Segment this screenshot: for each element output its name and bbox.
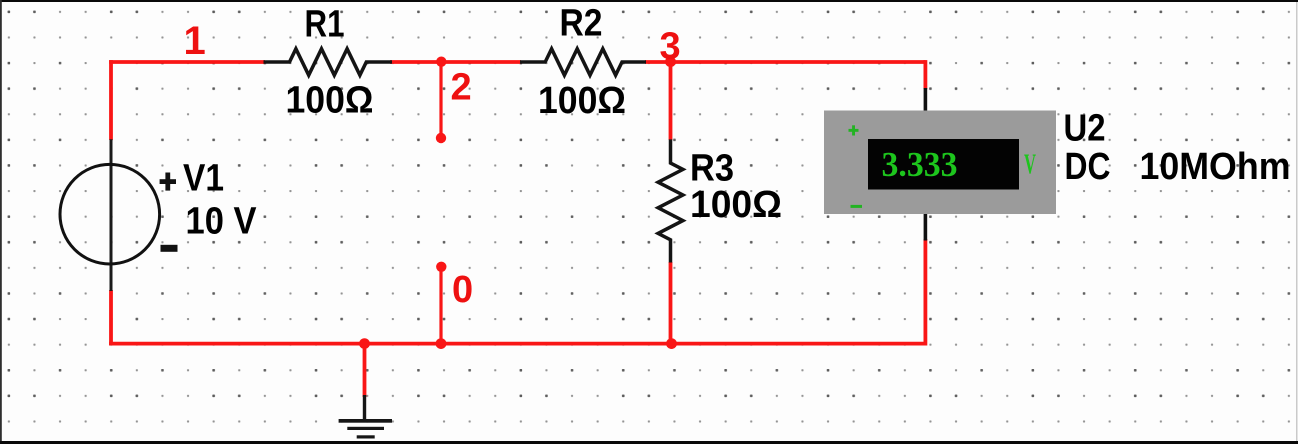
junction ground tap on bottom net	[359, 338, 370, 349]
wire: U2 bottom pin down to bottom net	[924, 239, 928, 346]
frame left border	[0, 0, 2, 441]
V1 minus polarity sign	[161, 245, 178, 252]
wire: top horizontal net 1 (left segment)	[109, 60, 265, 64]
wire: node 0 stub	[439, 267, 442, 344]
wire: node 2 stub	[439, 62, 442, 138]
ground	[339, 395, 392, 439]
U2 minus terminal mark	[851, 205, 863, 208]
frame top border	[0, 0, 1298, 2]
wire: top horizontal between R1 and R2 (node 2 segment)	[390, 60, 521, 64]
svg-text:10 V: 10 V	[186, 200, 258, 242]
svg-text:DC: DC	[1065, 146, 1111, 188]
junction node 0 stub top dot	[436, 262, 446, 272]
svg-text:U2: U2	[1064, 108, 1106, 150]
junction node 2 on top net	[436, 57, 446, 67]
svg-text:R1: R1	[305, 4, 345, 46]
wire: R3 bottom to bottom net	[669, 262, 673, 344]
wire: node 3 down to R3 top	[669, 62, 673, 140]
svg-text:1: 1	[184, 19, 206, 63]
svg-text:100Ω: 100Ω	[538, 80, 626, 122]
junction node 0 on bottom net	[436, 338, 447, 349]
svg-text:V1: V1	[183, 158, 224, 200]
svg-text:10MOhm: 10MOhm	[1140, 146, 1291, 188]
U2 plus terminal mark	[849, 125, 859, 135]
wire: right vertical down to U2 top pin	[924, 60, 928, 89]
resistor R1	[264, 49, 393, 75]
junction R3 bottom on bottom net	[666, 338, 677, 349]
multimeter U2	[824, 88, 1056, 241]
svg-text:3: 3	[660, 26, 681, 68]
svg-text:3.333: 3.333	[882, 145, 958, 184]
wire: top horizontal from R2 to right corner (node 3 segment)	[645, 60, 925, 64]
wire: left vertical from node 1 to V1 top pin	[109, 60, 113, 140]
frame right border	[1296, 2, 1297, 441]
svg-text:R2: R2	[560, 3, 603, 45]
U2 display	[868, 139, 1019, 190]
svg-text:2: 2	[451, 67, 472, 109]
V1 plus polarity sign	[160, 173, 176, 191]
svg-text:0: 0	[452, 269, 473, 311]
resistor R3	[658, 139, 683, 262]
frame bottom border	[0, 441, 1298, 444]
resistor R2	[520, 49, 646, 75]
svg-text:100Ω: 100Ω	[690, 184, 782, 226]
junction node 3 on top net	[665, 56, 676, 67]
wire: ground stub	[363, 344, 367, 397]
svg-text:100Ω: 100Ω	[286, 80, 374, 122]
svg-text:V: V	[1024, 149, 1036, 180]
voltage source V1	[60, 139, 160, 291]
wire: bottom horizontal net 0	[109, 342, 925, 346]
junction node 2 stub end dot	[436, 133, 446, 143]
wire: V1 bottom pin to bottom net	[109, 290, 113, 346]
